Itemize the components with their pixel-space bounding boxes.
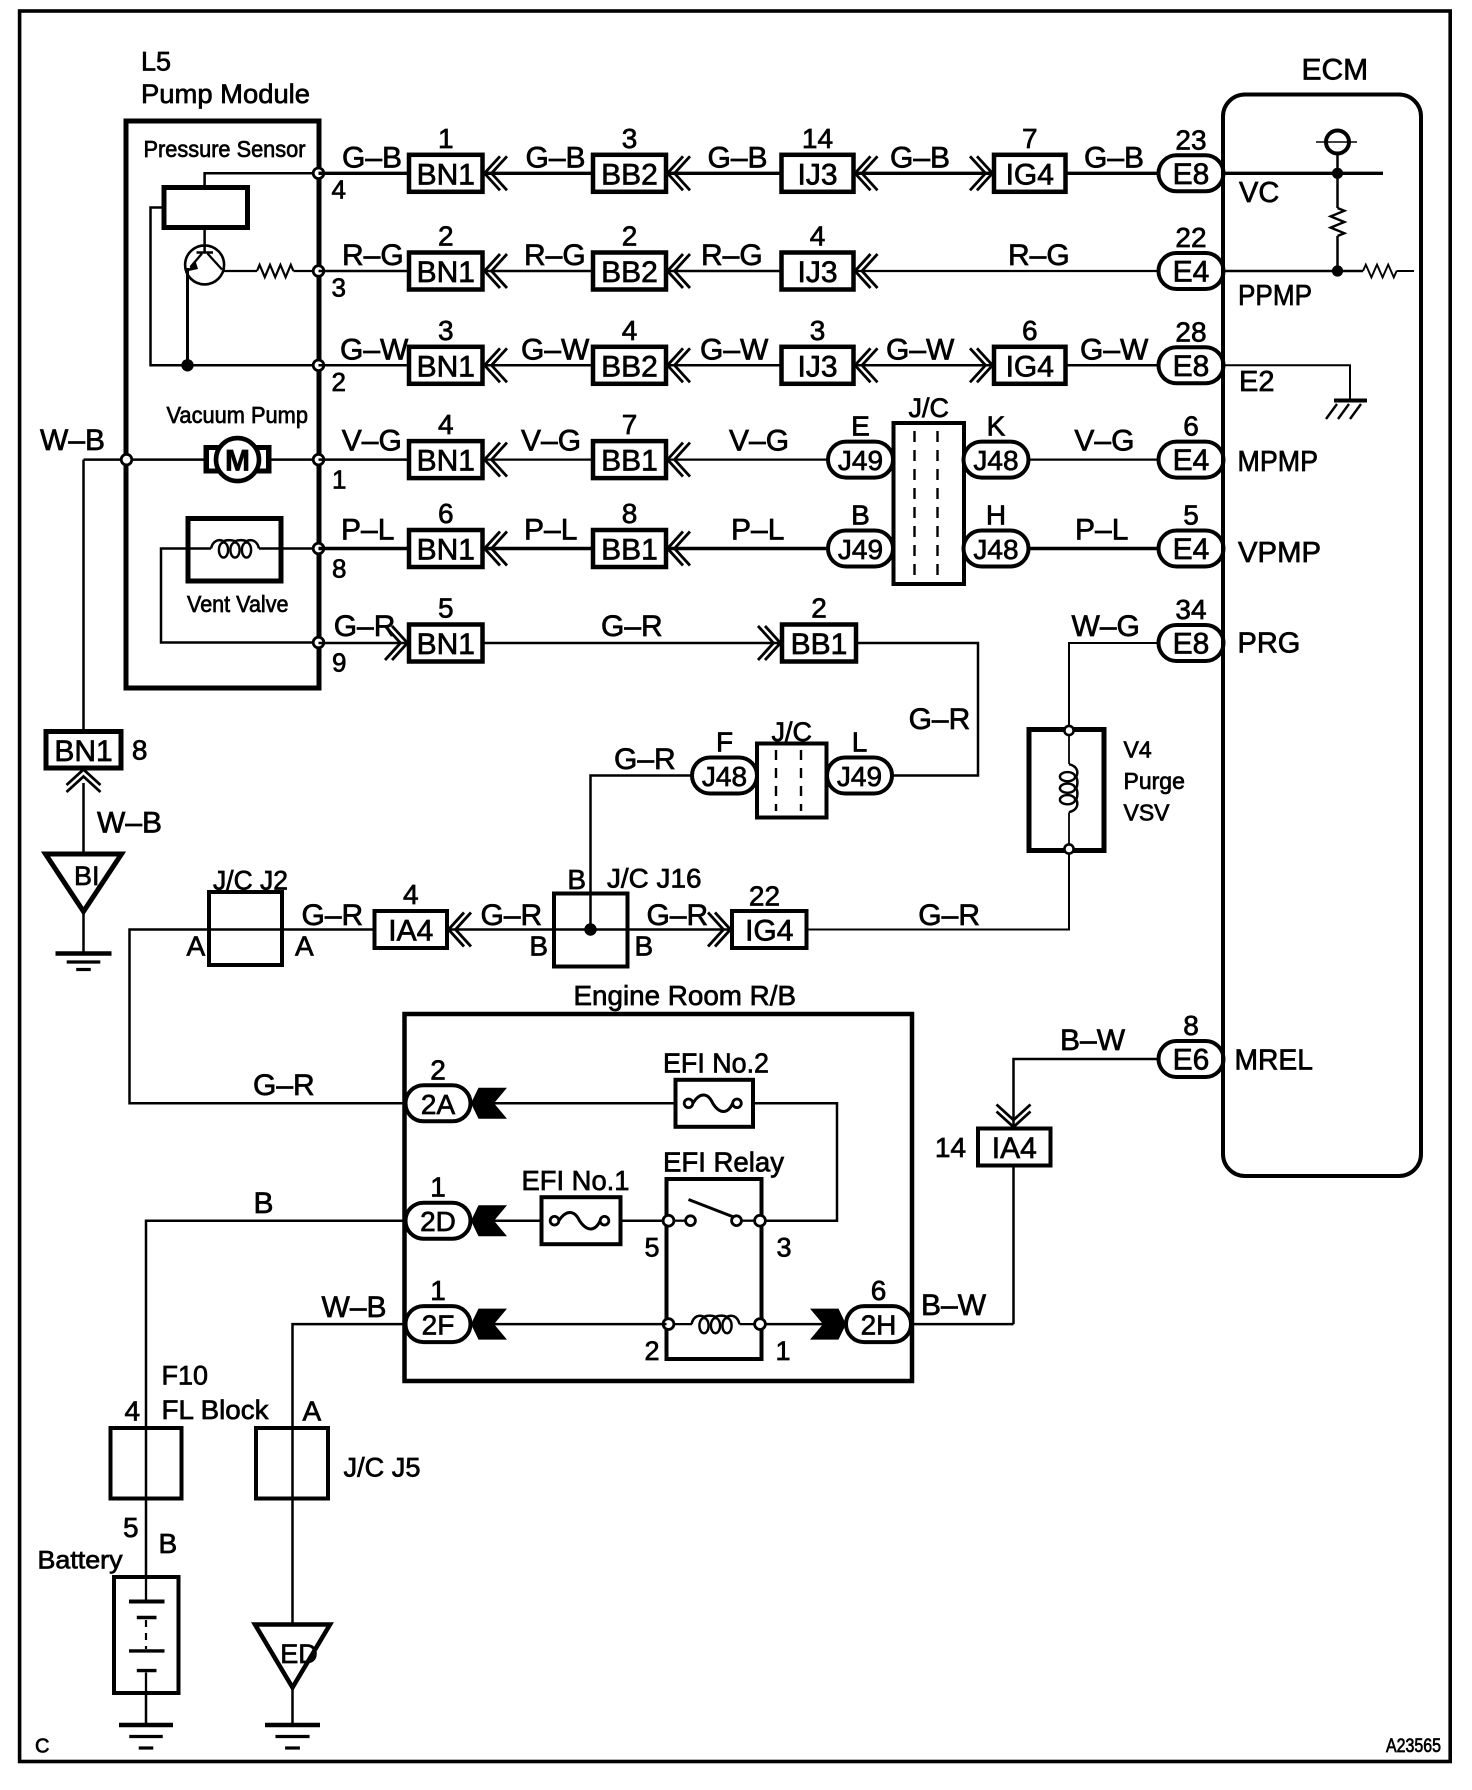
svg-text:G–R: G–R: [253, 1069, 315, 1102]
wire B from FL block to 2D: [146, 1221, 406, 1428]
svg-text:4: 4: [403, 879, 419, 910]
wire P-L row5 c: [666, 547, 828, 550]
wire B-W E6 to IA4: [1014, 1059, 1159, 1129]
svg-text:IG4: IG4: [1006, 158, 1054, 191]
wire G-W row3 b: [483, 364, 593, 367]
pump module L5 box: [126, 121, 319, 688]
vent valve box: [188, 519, 281, 582]
wire VSV coil: [1068, 735, 1070, 764]
wire G-B row1 c: [666, 172, 782, 175]
V4 Purge VSV box: [1029, 730, 1104, 851]
svg-text:MPMP: MPMP: [1238, 446, 1319, 478]
svg-text:W–B: W–B: [40, 424, 105, 457]
chevron: [485, 443, 501, 477]
connector E8 pin34 PRG: [1159, 625, 1224, 661]
svg-text:B–W: B–W: [1060, 1024, 1126, 1057]
svg-text:A: A: [295, 931, 314, 962]
svg-text:E2: E2: [1239, 366, 1274, 398]
black arrow 2H: [810, 1309, 846, 1340]
connector BB1 pin8: [593, 530, 666, 567]
wire V-G row4 a: [319, 458, 410, 461]
junction dot PPMP: [1332, 265, 1343, 276]
connector J48 F: [692, 758, 757, 794]
wire W-B down to BN1 8: [82, 460, 85, 732]
connector 2A pin2: [406, 1085, 471, 1121]
connector 2D pin1: [406, 1203, 471, 1239]
svg-text:G–W: G–W: [700, 333, 769, 366]
chevron: [668, 532, 684, 566]
svg-text:5: 5: [438, 593, 454, 624]
svg-text:J48: J48: [973, 534, 1018, 565]
chevron: [970, 348, 986, 382]
svg-text:14: 14: [802, 123, 833, 154]
resistor PPMP horizontal: [1363, 265, 1397, 278]
svg-text:2: 2: [430, 1054, 446, 1085]
wire VC inside ECM: [1224, 172, 1384, 175]
svg-text:Vent Valve: Vent Valve: [187, 591, 289, 617]
connector IJ3 pin4: [782, 253, 854, 290]
wire R-G row2 c: [666, 270, 782, 273]
connector 2H pin6: [846, 1306, 911, 1342]
wire vent valve to pin 8: [259, 547, 319, 550]
wire P-L row5 b: [483, 547, 593, 550]
wire 2H to IA4 14: [911, 1323, 1014, 1326]
chevron: [668, 254, 684, 288]
connector BN1 pin2: [409, 253, 483, 290]
module pin 3: [313, 266, 324, 277]
junction connector J/C block 2: [757, 744, 827, 818]
svg-text:BN1: BN1: [417, 256, 475, 289]
wire G-W row3 e: [1066, 364, 1159, 367]
svg-text:VC: VC: [1239, 177, 1279, 209]
J16 junction dot: [584, 923, 596, 935]
chevron: [758, 626, 774, 660]
wire PPMP inside ECM: [1224, 270, 1364, 273]
svg-text:IJ3: IJ3: [797, 256, 837, 289]
svg-text:A23565: A23565: [1386, 1736, 1441, 1757]
svg-text:E4: E4: [1173, 533, 1210, 566]
svg-text:6: 6: [438, 498, 454, 529]
svg-text:G–W: G–W: [340, 333, 409, 366]
svg-text:G–B: G–B: [708, 141, 768, 174]
wire P-L row5 d: [1029, 547, 1159, 550]
wire 2F to relay coil: [494, 1323, 667, 1326]
svg-text:V–G: V–G: [521, 425, 581, 458]
svg-text:ECM: ECM: [1302, 54, 1369, 87]
svg-text:1: 1: [430, 1172, 446, 1203]
svg-text:BN1: BN1: [417, 534, 475, 567]
svg-text:23: 23: [1175, 124, 1206, 155]
svg-text:EFI No.2: EFI No.2: [663, 1048, 769, 1079]
svg-text:Engine Room R/B: Engine Room R/B: [574, 980, 797, 1011]
svg-text:G–W: G–W: [521, 333, 590, 366]
wire relay pin1 to 2H: [765, 1323, 846, 1326]
svg-text:BB1: BB1: [601, 445, 658, 478]
svg-text:J/C J2: J/C J2: [213, 866, 288, 896]
resistor in pressure sensor: [257, 265, 293, 277]
wire transistor to node: [186, 268, 189, 365]
wire IA4 14 down to 2H: [1012, 1166, 1015, 1325]
VSV coil: [1060, 764, 1078, 812]
svg-text:J49: J49: [837, 761, 882, 792]
module pin 8: [313, 543, 324, 554]
svg-text:BN1: BN1: [417, 445, 475, 478]
svg-text:4: 4: [438, 409, 454, 440]
svg-text:2F: 2F: [422, 1310, 455, 1341]
chevron above IA4 14: [997, 1105, 1031, 1121]
svg-text:EFI Relay: EFI Relay: [663, 1147, 784, 1178]
svg-text:K: K: [987, 411, 1006, 442]
connector BN1 pin6: [409, 530, 483, 567]
svg-text:G–B: G–B: [342, 141, 402, 174]
svg-text:MREL: MREL: [1235, 1045, 1314, 1077]
vent valve coil: [211, 540, 259, 548]
junction connector J/C J2: [209, 892, 282, 965]
wire J48 F to J16: [591, 776, 693, 930]
svg-text:E8: E8: [1173, 350, 1210, 383]
wire 2D to EFI No.1: [494, 1219, 542, 1222]
svg-text:A: A: [303, 1396, 322, 1427]
svg-text:22: 22: [749, 881, 780, 912]
svg-text:E4: E4: [1173, 444, 1210, 477]
svg-text:V4: V4: [1124, 737, 1152, 763]
fuse EFI No.1: [542, 1197, 621, 1244]
connector BB1 pin7: [593, 441, 666, 478]
wire vent valve to pin 9: [161, 549, 319, 643]
connector 2F pin1: [406, 1306, 471, 1342]
wire sensor to pin 4: [205, 173, 319, 187]
connector IJ3 pin3: [782, 347, 854, 384]
pressure sensor element: [164, 188, 248, 228]
chevron: [708, 913, 724, 947]
connector J49 L: [827, 758, 892, 794]
ground ED: [255, 1625, 330, 1688]
wire J16 to IG4 22: [628, 928, 733, 931]
wire BI to ground: [82, 912, 85, 953]
chevron: [855, 156, 871, 190]
black arrow 2F: [471, 1309, 507, 1340]
svg-text:E8: E8: [1173, 158, 1210, 191]
svg-text:Battery: Battery: [38, 1547, 124, 1575]
wire W-G PRG to VSV: [1069, 643, 1159, 726]
battery: [114, 1577, 179, 1693]
wire VSV to IG4 22: [807, 854, 1070, 930]
junction connector J/C J5: [256, 1428, 328, 1499]
svg-text:4: 4: [622, 315, 638, 346]
chevron: [855, 348, 871, 382]
svg-text:BN1: BN1: [54, 735, 112, 768]
svg-text:PRG: PRG: [1238, 628, 1301, 660]
svg-text:G–R: G–R: [614, 743, 676, 776]
wire G-B row1 d: [854, 172, 995, 175]
svg-text:V–G: V–G: [729, 425, 789, 458]
black arrow 2D: [471, 1205, 507, 1236]
svg-text:28: 28: [1175, 316, 1206, 347]
wire G-W row3 c: [666, 364, 782, 367]
chevron: [385, 626, 401, 660]
svg-text:IJ3: IJ3: [797, 350, 837, 383]
svg-text:BN1: BN1: [417, 158, 475, 191]
svg-text:V–G: V–G: [1074, 425, 1134, 458]
VSV bottom terminal: [1064, 844, 1073, 853]
junction connector J/C J16: [554, 894, 628, 967]
svg-text:Pump Module: Pump Module: [141, 79, 310, 109]
svg-text:Pressure Sensor: Pressure Sensor: [144, 136, 306, 162]
svg-text:R–G: R–G: [342, 239, 404, 272]
wire P-L row5 a: [319, 547, 410, 550]
svg-text:2: 2: [438, 221, 454, 252]
connector IG4 pin22: [732, 911, 807, 948]
svg-text:R–G: R–G: [1008, 239, 1070, 272]
connector BN1 pin3: [409, 347, 483, 384]
svg-text:J49: J49: [838, 445, 883, 476]
svg-text:5: 5: [644, 1233, 659, 1263]
chevron: [485, 254, 501, 288]
svg-text:8: 8: [332, 554, 346, 584]
svg-text:9: 9: [332, 648, 346, 678]
connector BN1 pin5: [409, 625, 483, 662]
junction connector J/C block 1: [894, 423, 965, 584]
connector E8 pin28 E2: [1159, 347, 1224, 383]
wire E2 to chassis ground: [1224, 365, 1351, 399]
wire G-B row1 e: [1066, 172, 1159, 175]
wire G-B row1 a: [319, 172, 410, 175]
wire R-G row2 b: [483, 270, 593, 273]
connector IJ3 pin14: [782, 155, 854, 192]
svg-text:1: 1: [438, 123, 454, 154]
svg-text:G–R: G–R: [601, 610, 663, 643]
svg-text:BI: BI: [74, 861, 100, 891]
black arrow 2A: [471, 1088, 507, 1119]
fuse EFI No.2: [676, 1080, 754, 1127]
wire V-G row4 c: [666, 459, 828, 461]
chevron: [855, 254, 871, 288]
svg-text:B: B: [254, 1187, 274, 1220]
svg-text:6: 6: [1022, 315, 1038, 346]
wire G-W row3 d: [854, 364, 995, 367]
wire W-B into module: [84, 458, 205, 461]
wire VC circle down: [1336, 154, 1339, 174]
wire resistor to pin 3: [294, 270, 319, 272]
svg-text:P–L: P–L: [731, 514, 784, 547]
svg-text:C: C: [35, 1736, 49, 1758]
svg-text:L: L: [852, 727, 868, 758]
connector IA4 pin14: [978, 1129, 1051, 1166]
svg-text:22: 22: [1175, 222, 1206, 253]
svg-text:G–R: G–R: [302, 899, 364, 932]
junction node: [181, 359, 193, 371]
VC supply circle: [1316, 141, 1357, 143]
motor M vacuum pump: [204, 446, 225, 474]
wire BI to BN1 8: [82, 783, 85, 854]
relay EFI box: [667, 1179, 762, 1359]
svg-text:4: 4: [810, 221, 826, 252]
svg-text:3: 3: [776, 1233, 791, 1263]
connector BB2 pin2: [593, 253, 666, 290]
wire G-W row3 a: [319, 364, 410, 367]
junction dot VC: [1332, 168, 1343, 179]
svg-text:G–R: G–R: [918, 899, 980, 932]
svg-text:J49: J49: [838, 534, 883, 565]
svg-text:G–R: G–R: [647, 899, 709, 932]
svg-text:1: 1: [332, 465, 346, 495]
relay switch: [673, 1220, 687, 1222]
svg-text:ED: ED: [280, 1639, 318, 1669]
svg-text:G–B: G–B: [890, 141, 950, 174]
svg-text:14: 14: [935, 1132, 966, 1163]
svg-text:BB1: BB1: [791, 628, 848, 661]
wire R-G row2 d: [854, 270, 1159, 272]
svg-text:B–W: B–W: [921, 1289, 987, 1322]
svg-text:3: 3: [438, 315, 454, 346]
chevron: [485, 532, 501, 566]
connector BN1 pin1: [409, 155, 483, 192]
svg-text:W–B: W–B: [322, 1291, 387, 1324]
svg-text:3: 3: [810, 315, 826, 346]
svg-text:P–L: P–L: [1075, 514, 1128, 547]
chevron: [970, 156, 986, 190]
wire IA4 to J16: [447, 928, 554, 931]
svg-text:R–G: R–G: [524, 239, 586, 272]
svg-text:IJ3: IJ3: [797, 158, 837, 191]
svg-text:8: 8: [622, 498, 638, 529]
svg-text:IA4: IA4: [388, 915, 433, 948]
svg-text:J/C J16: J/C J16: [607, 864, 702, 894]
wire sensor left side to pin 2: [151, 208, 319, 366]
resistor ECM vertical: [1336, 173, 1339, 208]
wire EFI No.2 to relay pin3: [753, 1103, 837, 1220]
chevron below BN1 8: [67, 770, 101, 786]
svg-text:5: 5: [1183, 500, 1199, 531]
svg-text:2A: 2A: [421, 1089, 456, 1120]
svg-text:J/C: J/C: [772, 717, 813, 747]
connector BN1 pin4: [409, 441, 483, 478]
svg-text:A: A: [187, 931, 206, 962]
wire through FL block: [145, 1428, 148, 1577]
engine room relay block box: [405, 1014, 913, 1381]
svg-text:F: F: [716, 727, 733, 758]
chevron: [485, 156, 501, 190]
svg-text:P–L: P–L: [341, 514, 394, 547]
svg-text:G–B: G–B: [1084, 141, 1144, 174]
svg-text:4: 4: [332, 175, 346, 205]
connector IG4 pin7: [994, 155, 1066, 192]
relay coil: [674, 1323, 692, 1325]
wire after PPMP resistor: [1397, 270, 1415, 272]
connector IA4 pin4: [375, 911, 448, 948]
ground BI: [46, 854, 122, 912]
connector E6 pin8 MREL: [1159, 1041, 1224, 1077]
connector IG4 pin6: [994, 347, 1066, 384]
svg-text:IG4: IG4: [1006, 350, 1054, 383]
svg-text:BB2: BB2: [601, 350, 658, 383]
svg-text:E4: E4: [1173, 256, 1210, 289]
svg-text:6: 6: [871, 1275, 887, 1306]
connector E8 pin23 VC: [1159, 155, 1224, 191]
svg-text:IA4: IA4: [992, 1132, 1037, 1165]
svg-text:8: 8: [132, 735, 148, 766]
wire EFI No.1 to relay: [621, 1219, 667, 1222]
svg-text:J/C J5: J/C J5: [344, 1453, 421, 1483]
svg-text:G–B: G–B: [526, 141, 586, 174]
svg-text:F10: F10: [162, 1361, 209, 1391]
wire G-B row1 b: [483, 172, 593, 175]
transistor symbol in pressure sensor: [203, 228, 206, 253]
wire G-R row6 b: [483, 642, 783, 645]
module pin 1: [313, 454, 324, 465]
svg-text:2: 2: [332, 367, 346, 397]
svg-text:H: H: [986, 500, 1006, 531]
svg-text:E: E: [851, 411, 870, 442]
svg-text:2: 2: [644, 1336, 659, 1366]
connector E4 pin6 MPMP: [1159, 442, 1224, 478]
svg-text:W–G: W–G: [1072, 610, 1140, 643]
svg-text:8: 8: [1183, 1010, 1199, 1041]
svg-text:EFI No.1: EFI No.1: [522, 1165, 630, 1196]
svg-text:B: B: [567, 864, 586, 895]
chevron: [668, 443, 684, 477]
chassis ground E2: [1334, 399, 1367, 403]
svg-text:J/C: J/C: [909, 393, 950, 423]
svg-text:BB2: BB2: [601, 158, 658, 191]
svg-text:M: M: [225, 445, 250, 478]
wire R-G row2 a: [319, 270, 410, 273]
wire J2 to 2A: [130, 930, 406, 1104]
wire V-G row4 b: [483, 459, 593, 461]
connector BB2 pin3: [593, 155, 666, 192]
svg-text:G–W: G–W: [886, 333, 955, 366]
svg-text:E8: E8: [1173, 628, 1210, 661]
wire J5 to ED: [291, 1428, 294, 1625]
svg-text:2D: 2D: [420, 1206, 456, 1237]
svg-text:G–R: G–R: [481, 899, 543, 932]
module pin 2: [313, 360, 324, 371]
svg-text:V–G: V–G: [342, 425, 402, 458]
svg-text:BN1: BN1: [417, 628, 475, 661]
chevron: [449, 913, 465, 947]
svg-text:1: 1: [430, 1275, 446, 1306]
svg-text:B: B: [529, 931, 548, 962]
svg-text:E6: E6: [1173, 1044, 1210, 1077]
svg-text:BB1: BB1: [601, 534, 658, 567]
wire battery to ground: [145, 1693, 148, 1723]
connector J49 B: [828, 531, 893, 567]
wire V-G row4 d: [1029, 459, 1159, 461]
svg-text:B: B: [159, 1528, 178, 1559]
svg-text:BN1: BN1: [417, 350, 475, 383]
connector E4 pin5 VPMP: [1159, 531, 1224, 567]
module pin W-B junction: [121, 454, 132, 465]
svg-text:L5: L5: [141, 47, 171, 77]
chevron: [668, 348, 684, 382]
svg-text:VSV: VSV: [1124, 800, 1171, 826]
svg-text:B: B: [851, 500, 870, 531]
connector E4 pin22 PPMP: [1159, 253, 1224, 289]
svg-text:B: B: [635, 931, 654, 962]
connector J48 K: [964, 442, 1029, 478]
wire BB1 to J49 L: [856, 643, 978, 776]
svg-text:P–L: P–L: [524, 514, 577, 547]
svg-text:6: 6: [1183, 411, 1199, 442]
chevron: [668, 156, 684, 190]
svg-text:3: 3: [332, 273, 346, 303]
svg-text:VPMP: VPMP: [1238, 537, 1321, 569]
wire motor to pin 1: [271, 458, 319, 461]
svg-text:J48: J48: [702, 761, 747, 792]
svg-text:W–B: W–B: [97, 807, 162, 840]
svg-text:2: 2: [811, 593, 827, 624]
ground battery: [119, 1723, 173, 1728]
